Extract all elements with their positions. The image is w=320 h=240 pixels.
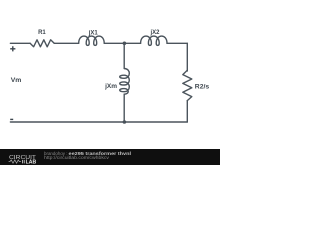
svg-text:R1: R1 [38,30,46,36]
wire bottom rail [10,121,187,123]
svg-text:jX1: jX1 [88,30,99,36]
inductor jX2 [141,36,167,45]
wire right vertical top [186,43,188,71]
svg-text:jX2: jX2 [149,30,160,36]
wire jXm to bottom node B [123,94,125,122]
svg-text:http://circuitlab.com/cwhbkcv: http://circuitlab.com/cwhbkcv [44,155,110,160]
wire top-left from + terminal to R1 [10,42,30,44]
node B junction dot [123,120,127,124]
resistor R1 [30,40,54,47]
svg-text:R2/s: R2/s [195,84,210,91]
wire jX2 to right corner [167,42,187,44]
svg-text:jXm: jXm [104,83,117,90]
wire R1 to jX1 [54,42,78,44]
terminal - sign [10,118,13,120]
svg-text:Vm: Vm [11,77,22,84]
svg-text:LAB: LAB [26,160,37,166]
footer bar [0,149,220,165]
CircuitLab logo resistor zigzag [9,160,21,163]
resistor R2/s [183,70,192,100]
wire right vertical bottom [186,101,188,122]
terminal + sign [10,46,15,51]
inductor jXm [120,69,130,95]
inductor jX1 [79,36,105,45]
node A junction dot [123,42,127,46]
wire node A down to jXm [123,43,125,68]
wire jX1 to jX2 through node A [104,42,140,44]
CircuitLab logo capacitor bars [23,160,25,164]
